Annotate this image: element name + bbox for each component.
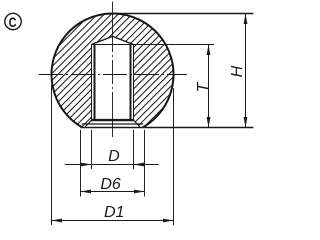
arrow D6 left (pointing left/out) [81, 190, 92, 194]
thread bottom thick line [91, 119, 134, 121]
pilot hole wall right (thick) [130, 45, 132, 120]
arrow H top (pointing up) [244, 14, 248, 25]
chamfer right [134, 120, 141, 127]
form variant marker circle C [5, 13, 21, 29]
dimension line D [65, 164, 159, 166]
thread major line right (thin) [133, 45, 135, 121]
dimension line H [245, 14, 247, 128]
thread end line + T reference line [92, 44, 215, 46]
vertical centerline [112, 2, 114, 138]
bottom flat line + reference line for T/H [81, 127, 254, 129]
pilot hole wall left (thick) [94, 45, 96, 120]
svg-text:T: T [195, 81, 212, 92]
svg-text:H: H [229, 65, 246, 77]
svg-text:D6: D6 [100, 176, 121, 193]
ball outline (sphere cut flat at bottom) [51, 14, 173, 128]
extension line D1 left [51, 85, 53, 225]
svg-text:C: C [9, 14, 17, 30]
svg-text:D: D [108, 148, 120, 165]
drill cone right slope [113, 36, 134, 44]
extension line D6 right [144, 130, 146, 197]
dimension line T [208, 45, 210, 128]
horizontal centerline [39, 74, 187, 76]
chamfer left [85, 120, 92, 127]
extension line D6 left [80, 130, 82, 197]
drill cone left slope [92, 36, 113, 44]
arrow D right (outside, pointing left) [134, 163, 145, 167]
bottom step line [82, 123, 143, 125]
arrow H bottom (pointing down) [244, 117, 248, 128]
arrow D1 left (pointing left/out) [52, 219, 63, 223]
extension line D right [133, 130, 135, 170]
dimension line D1 [52, 220, 174, 222]
dimension line D6 [81, 191, 145, 193]
arrow T bottom (pointing down) [207, 117, 211, 128]
thread major line left (thin) [91, 45, 93, 121]
arrow D6 right (pointing right/out) [134, 190, 145, 194]
extension line D1 right [173, 88, 175, 225]
arrow T top (pointing up) [207, 45, 211, 56]
extension line D left [91, 130, 93, 170]
top reference line for H [113, 13, 254, 15]
arrow D1 right (pointing right/out) [163, 219, 174, 223]
section hatching of ball [45, 8, 185, 133]
arrow D left (outside, pointing right) [81, 163, 92, 167]
svg-text:D1: D1 [104, 204, 124, 221]
